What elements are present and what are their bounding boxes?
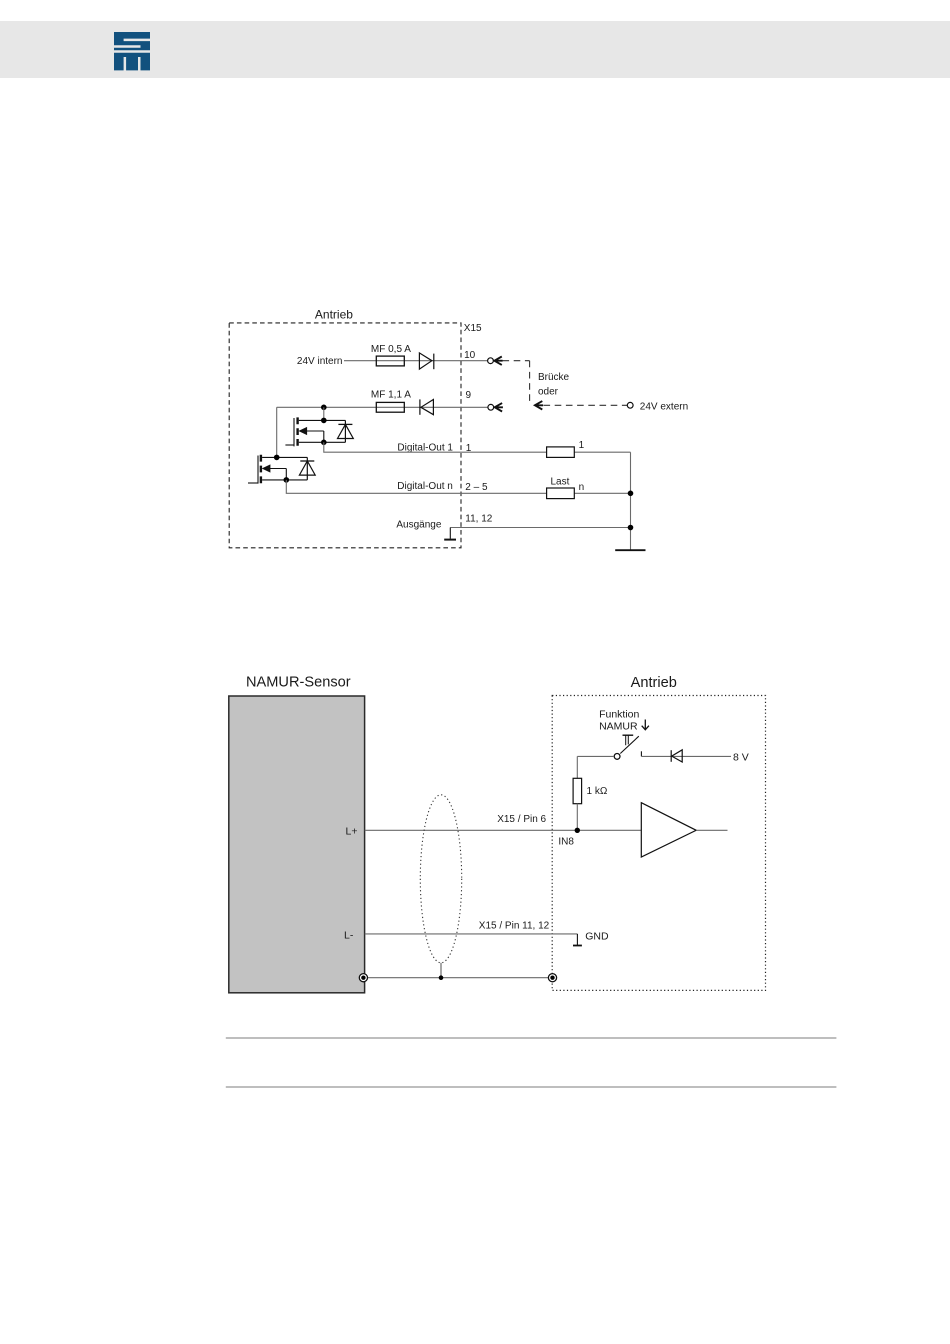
load resistor n [547, 488, 575, 499]
earth ground bar [615, 549, 645, 551]
svg-text:L+: L+ [346, 825, 358, 837]
svg-text:X15 / Pin 6: X15 / Pin 6 [497, 814, 546, 825]
svg-text:1: 1 [579, 440, 585, 451]
logo SM (blue square logo) [114, 32, 150, 71]
dashed enclosure box Antrieb [229, 323, 461, 548]
svg-text:Digital-Out n: Digital-Out n [397, 481, 453, 492]
horizontal rule 1 [226, 1037, 837, 1039]
shield terminal left (circle with dot) [359, 974, 367, 982]
svg-text:1 kΩ: 1 kΩ [587, 786, 608, 797]
svg-text:X15 / Pin 11, 12: X15 / Pin 11, 12 [479, 921, 550, 932]
junction dot load n output [628, 491, 634, 497]
load resistor 1 [547, 447, 575, 458]
transistor Q2 (MOSFET lower) [248, 455, 307, 484]
horizontal rule 2 [226, 1086, 837, 1088]
switch right contact tick [640, 751, 642, 756]
dashed wire to 24V extern [544, 404, 628, 406]
svg-text:Antrieb: Antrieb [315, 307, 353, 321]
diode V1 (row1, pointing right) [419, 353, 433, 369]
wire row1 24V intern to fuse/diode [344, 360, 488, 362]
svg-text:NAMUR: NAMUR [599, 721, 638, 733]
arrowhead from 24V extern toward bridge [535, 401, 543, 409]
arrowhead into pin 10 [494, 357, 502, 365]
shield terminal right (circle with dot) [548, 974, 556, 982]
down arrow glyph [642, 720, 649, 730]
junction dot Ausgaenge/earth [628, 525, 634, 531]
svg-text:8 V: 8 V [733, 752, 749, 764]
transistor Q1 (MOSFET upper) [285, 417, 345, 446]
header bar [0, 21, 950, 78]
svg-text:10: 10 [464, 350, 476, 361]
wire resistor to IN8 node [576, 804, 578, 831]
junction dot Q1 drain [321, 418, 327, 424]
svg-text:24V intern: 24V intern [297, 356, 343, 367]
svg-text:X15: X15 [464, 323, 482, 334]
svg-text:Digital-Out 1: Digital-Out 1 [397, 442, 453, 453]
fuse F1 MF 0,5 A [376, 356, 404, 366]
NAMUR sensor gray box [229, 696, 365, 993]
comparator U1 (amplifier triangle) [641, 803, 696, 857]
wire L+ to comparator [365, 829, 642, 831]
svg-text:2 – 5: 2 – 5 [465, 482, 488, 493]
terminal circle pin 10 [488, 358, 494, 364]
svg-text:Brücke: Brücke [538, 372, 570, 383]
terminal circle 24V extern [627, 402, 633, 408]
svg-text:Last: Last [551, 477, 570, 488]
wire switch to diode and 8V [641, 755, 731, 757]
svg-text:9: 9 [466, 390, 472, 401]
wire switch left to resistor [577, 756, 614, 778]
junction dot Q2 source [284, 477, 290, 483]
svg-text:24V extern: 24V extern [640, 402, 688, 413]
dashed bridge wire (Bruecke) row1 to row2 [503, 361, 530, 404]
cable shield ellipse (dotted) [420, 795, 461, 963]
wire Ausgaenge return [450, 527, 630, 529]
svg-text:Antrieb: Antrieb [631, 675, 677, 691]
junction dot IN8 [575, 828, 580, 833]
diode V3 (pointing left toward switch) [671, 750, 682, 762]
arrowhead into pin 9 [495, 403, 503, 411]
wire row2 down to Q1 drain [323, 407, 325, 420]
diode V2 (row2, pointing left) [420, 399, 434, 414]
junction dot Q2 drain [274, 455, 280, 461]
switch S1 actuator T [623, 735, 634, 745]
wire Digital-Out 1 [324, 442, 631, 550]
terminal circle pin 9 [488, 404, 494, 410]
switch S1 lever [620, 736, 639, 753]
dotted enclosure box Antrieb [552, 696, 765, 991]
svg-text:IN8: IN8 [558, 837, 574, 848]
wire Digital-Out n [286, 480, 630, 493]
fuse F2 MF 1,1 A [376, 402, 404, 412]
wire row2 (fused 24V) [277, 407, 488, 457]
svg-text:11, 12: 11, 12 [465, 513, 492, 524]
svg-text:MF 0,5 A: MF 0,5 A [371, 344, 411, 355]
svg-text:MF 1,1 A: MF 1,1 A [371, 390, 411, 401]
svg-text:Ausgänge: Ausgänge [396, 520, 441, 531]
svg-text:L-: L- [344, 930, 354, 942]
body diode of Q2 [299, 457, 315, 480]
junction dot on shield wire [439, 975, 444, 980]
wire comparator output [696, 829, 727, 831]
wire shield drop [440, 963, 442, 978]
wire L- to GND [365, 933, 578, 935]
body diode of Q1 [338, 420, 354, 442]
svg-text:Funktion: Funktion [599, 709, 639, 721]
svg-text:NAMUR-Sensor: NAMUR-Sensor [246, 675, 351, 691]
resistor 1 kOhm [573, 778, 582, 803]
ground symbol at Ausgaenge [444, 528, 456, 540]
svg-text:oder: oder [538, 387, 559, 398]
junction dot row2 above Q1 [321, 405, 327, 411]
switch S1 (Funktion NAMUR) circle contact [614, 754, 620, 760]
junction dot Q1 source [321, 440, 327, 446]
GND symbol [573, 934, 582, 946]
svg-text:GND: GND [585, 931, 609, 943]
shield bonding wire [363, 977, 552, 979]
svg-text:n: n [579, 482, 585, 493]
